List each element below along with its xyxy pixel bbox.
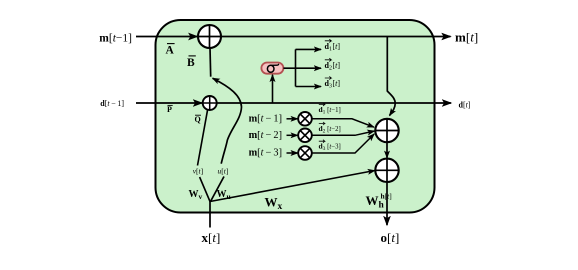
svg-text:h[t]: h[t] xyxy=(381,192,392,201)
svg-text:A: A xyxy=(166,45,175,57)
svg-text:d1 [t−1]: d1 [t−1] xyxy=(319,105,341,116)
label d2[t-2] xyxy=(319,122,341,134)
svg-text:B: B xyxy=(187,57,195,69)
cell body (rounded green box) xyxy=(156,20,435,213)
wire sigma output to fanout xyxy=(283,49,295,86)
svg-text:d1[t]: d1[t] xyxy=(325,42,341,53)
svg-text:P: P xyxy=(167,105,172,114)
svg-text:m[t−1]: m[t−1] xyxy=(99,32,132,44)
svg-text:d[t]: d[t] xyxy=(459,101,471,110)
adder U-top (m-line) xyxy=(198,25,221,48)
wire m[t-2] to mult2 xyxy=(287,134,298,136)
adder2 xyxy=(375,159,398,182)
svg-text:x[t]: x[t] xyxy=(202,230,221,245)
label d3[t] xyxy=(325,76,341,89)
adder1 xyxy=(375,119,398,142)
multiplier X1 xyxy=(298,112,312,126)
wire m branch to adder1 (S-curve) xyxy=(387,37,395,116)
svg-text:d3 [t−3]: d3 [t−3] xyxy=(319,142,341,153)
wire x[t] stem xyxy=(209,202,211,228)
wire d-line to sigma xyxy=(272,75,274,103)
svg-text:m[t − 2]: m[t − 2] xyxy=(249,130,282,141)
wire branch d2[t] xyxy=(296,67,322,69)
svg-text:m[t − 1]: m[t − 1] xyxy=(249,113,282,124)
wire mult1 to adder1 xyxy=(312,119,374,127)
wire d[t-1] input xyxy=(136,102,202,104)
wire m[t-1] to mult1 xyxy=(287,118,298,120)
wire m output xyxy=(221,36,451,38)
label Q-bar xyxy=(195,115,202,124)
wire u-curve x to top adder xyxy=(211,78,242,201)
svg-text:m[t − 3]: m[t − 3] xyxy=(249,148,282,159)
svg-text:d2 [t−2]: d2 [t−2] xyxy=(319,124,341,135)
multiplier X2 xyxy=(298,129,312,143)
wire branch d3[t] xyxy=(296,86,322,88)
svg-text:u[t]: u[t] xyxy=(218,166,229,175)
label d1[t] xyxy=(325,39,341,52)
svg-text:o[t]: o[t] xyxy=(381,230,400,245)
wire B-bar vertical from top adder xyxy=(209,48,212,77)
multiplier X3 xyxy=(298,146,312,160)
wire m[t-3] to mult3 xyxy=(287,152,298,154)
svg-text:v[t]: v[t] xyxy=(193,166,203,175)
wire mult2 to adder1 xyxy=(312,131,375,135)
svg-text:d[t − 1]: d[t − 1] xyxy=(100,99,124,108)
wire m[t-1] input xyxy=(136,36,197,38)
svg-text:m[t]: m[t] xyxy=(455,29,478,44)
label A-bar xyxy=(166,44,175,57)
adder U-mid (d-line) xyxy=(203,96,217,110)
wire mult3 to adder1 xyxy=(312,134,374,153)
sigma unit xyxy=(261,63,283,74)
wire adder1 to adder2 xyxy=(386,142,388,158)
label B-bar xyxy=(187,56,196,69)
label d1[t-1] xyxy=(319,103,341,115)
wire d output xyxy=(217,102,451,104)
svg-text:d2[t]: d2[t] xyxy=(325,61,341,72)
wire W_x to adder2 xyxy=(210,171,375,202)
wire v-line to mid adder xyxy=(198,110,211,202)
wire branch d1[t] xyxy=(296,48,322,50)
wire output h to o[t] xyxy=(386,182,388,225)
label P-bar xyxy=(167,105,173,114)
label d2[t] xyxy=(325,58,341,71)
svg-text:Q: Q xyxy=(195,115,201,124)
svg-text:d3[t]: d3[t] xyxy=(325,79,341,90)
label d3[t-3] xyxy=(319,140,341,152)
